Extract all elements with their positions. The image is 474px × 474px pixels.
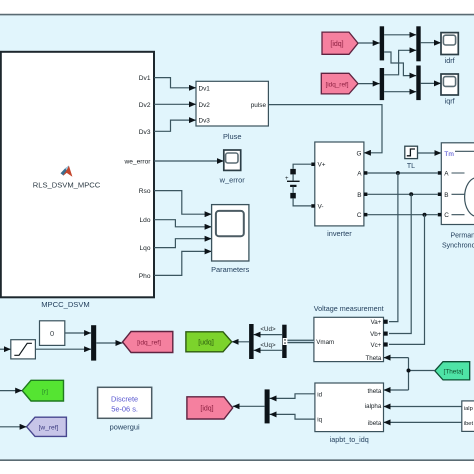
svg-text:Pho: Pho	[139, 273, 151, 280]
svg-text:Rso: Rso	[139, 188, 151, 195]
svg-text:B: B	[357, 192, 361, 199]
svg-text:A: A	[357, 171, 362, 178]
goto tag [w_ref]	[27, 417, 67, 436]
from tag [idq_ref] (top)	[321, 73, 358, 94]
wire idq_ref to demux	[358, 83, 380, 85]
port square V-	[311, 204, 315, 208]
svg-text:Permanent: Permanent	[451, 233, 474, 240]
wire mux to iqrf	[421, 82, 441, 84]
svg-text:we_error: we_error	[123, 159, 151, 166]
subsystem MPCC_DSVM	[1, 52, 154, 297]
port square PMSM B	[438, 193, 442, 197]
wire d3 out2	[384, 91, 416, 93]
scope iqrf	[441, 74, 458, 95]
svg-text:V+: V+	[318, 162, 326, 169]
block iapbt_to_idq	[315, 383, 384, 432]
demux Vmam	[282, 325, 286, 358]
svg-text:C: C	[357, 212, 362, 219]
scope w_error	[224, 150, 241, 170]
svg-text:pulse: pulse	[251, 102, 267, 109]
wire saturation to mux	[35, 348, 91, 350]
svg-text:inverter: inverter	[327, 229, 352, 238]
wire iq to mux	[270, 414, 315, 419]
wire id to mux	[270, 394, 315, 399]
svg-text:[Theta]: [Theta]	[444, 369, 464, 376]
wire mux to idq_ref tag	[96, 342, 122, 344]
svg-text:Voltage measurement: Voltage measurement	[314, 304, 384, 313]
mux M2	[416, 26, 420, 61]
wire ibeta	[384, 421, 462, 423]
wire Dv3	[154, 120, 196, 131]
from tag [Theta]	[435, 362, 470, 380]
svg-text:ibeta: ibeta	[368, 420, 382, 427]
mux M4	[416, 66, 420, 101]
svg-text:ialp: ialp	[464, 406, 473, 412]
svg-text:Va+: Va+	[371, 319, 382, 326]
svg-text:Vc+: Vc+	[370, 342, 381, 349]
node A tap	[396, 171, 400, 175]
svg-text:powergui: powergui	[110, 423, 140, 432]
goto tag [r]	[22, 380, 63, 401]
wire theta to iapbt	[384, 389, 409, 391]
wire Vmam thick	[283, 338, 314, 345]
machine PMSM	[441, 143, 474, 225]
svg-text:iq: iq	[317, 417, 322, 424]
svg-text:ibet: ibet	[464, 421, 474, 427]
wire phase B	[367, 193, 437, 195]
wire 0 to mux	[65, 332, 91, 334]
wire battery to V+	[293, 164, 311, 169]
svg-text:G: G	[357, 150, 362, 157]
svg-text:[r]: [r]	[42, 388, 48, 395]
wire Lqo	[154, 239, 212, 248]
block current measurement (cut)	[462, 401, 474, 432]
svg-text:Discrete: Discrete	[111, 395, 138, 404]
svg-text:idrf: idrf	[445, 56, 455, 65]
svg-text:[udq]: [udq]	[198, 340, 214, 347]
wire mux to udq tag	[232, 341, 249, 343]
svg-text:RLS_DSVM_MPCC: RLS_DSVM_MPCC	[33, 181, 101, 190]
wire d3 out1 crossing	[384, 50, 416, 75]
demux D3	[380, 68, 384, 100]
svg-text:Vmam: Vmam	[316, 339, 334, 346]
wire Theta net	[409, 358, 435, 390]
port square inverter A	[364, 171, 368, 175]
svg-text:0: 0	[50, 329, 54, 338]
block Voltage measurement	[314, 317, 384, 361]
wire Dv2	[154, 103, 196, 105]
wire mux to idrf	[421, 42, 441, 44]
svg-text:B: B	[444, 192, 448, 199]
svg-text:Parameters: Parameters	[211, 265, 250, 274]
wire pulse to G	[268, 105, 382, 153]
svg-text:theta: theta	[368, 388, 382, 395]
wire B to Vb+	[389, 194, 411, 333]
top border line	[0, 14, 474, 16]
wire d1 out1	[384, 34, 416, 36]
wire A to Va+	[389, 173, 398, 322]
port square Va+	[384, 320, 388, 324]
svg-text:Dv2: Dv2	[139, 102, 151, 109]
wire d1 out2 crossing	[384, 52, 416, 76]
svg-text:Pluse: Pluse	[223, 132, 242, 141]
wire Theta to voltage measurement	[384, 357, 409, 359]
svg-text:iapbt_to_idq: iapbt_to_idq	[330, 435, 369, 444]
svg-text:iqrf: iqrf	[445, 97, 455, 106]
constant 0	[40, 321, 65, 346]
wire input to saturation	[0, 348, 11, 350]
wire we_error	[154, 160, 224, 162]
svg-text:Dv3: Dv3	[199, 118, 211, 125]
wire C to Vc+	[389, 215, 425, 345]
goto tag [udq]	[186, 332, 232, 352]
svg-text:Tm: Tm	[444, 151, 454, 158]
port square PMSM A	[438, 171, 442, 175]
svg-text:Synchronous: Synchronous	[442, 243, 474, 250]
svg-text:Vb+: Vb+	[370, 331, 382, 338]
port square PMSM C	[438, 213, 442, 217]
svg-text:TL: TL	[407, 163, 415, 170]
wire Ud	[254, 334, 283, 336]
wire to [w_ref]	[0, 426, 27, 428]
svg-text:MPCC_DSVM: MPCC_DSVM	[41, 300, 90, 309]
bottom border line	[0, 459, 474, 461]
PMSM icon stator lines	[452, 151, 474, 214]
saturation block	[11, 340, 36, 359]
wire ialpha	[384, 406, 462, 408]
svg-text:A: A	[444, 171, 449, 178]
svg-text:Lqo: Lqo	[139, 245, 150, 252]
svg-text:[idq_ref]: [idq_ref]	[325, 81, 348, 88]
port square Vc+	[384, 342, 388, 346]
wire Pho	[154, 251, 212, 275]
wire Rso	[154, 191, 212, 215]
wire phase A	[367, 172, 437, 174]
goto tag [idq_ref] (bottom)	[123, 332, 173, 353]
svg-text:+: +	[285, 176, 289, 182]
wire phase C	[367, 214, 437, 216]
svg-text:Ldo: Ldo	[139, 217, 150, 224]
powergui block	[98, 387, 152, 418]
block inverter	[315, 142, 364, 226]
svg-text:ialpha: ialpha	[365, 403, 382, 410]
port square inverter C	[364, 213, 368, 217]
demux D1	[380, 26, 384, 60]
wire battery to V-	[293, 198, 311, 206]
node B tap	[409, 192, 413, 196]
MATLAB logo icon	[61, 166, 73, 177]
wire mux to idq tag	[233, 405, 265, 407]
DC source battery	[285, 169, 300, 199]
svg-text:[idq]: [idq]	[200, 406, 213, 413]
svg-text:Dv2: Dv2	[199, 102, 211, 109]
node C tap	[423, 213, 427, 217]
svg-text:<Ud>: <Ud>	[260, 326, 276, 333]
scope idrf	[441, 33, 458, 55]
block Pluse	[196, 81, 268, 126]
svg-text:Theta: Theta	[365, 355, 381, 362]
wire Ldo	[154, 220, 212, 227]
port square V+	[311, 163, 315, 167]
port square Vb+	[384, 332, 388, 336]
svg-text:C: C	[444, 212, 449, 219]
svg-text:[idq_ref]: [idq_ref]	[137, 340, 161, 347]
svg-text:V-: V-	[318, 203, 324, 210]
svg-text:[w_ref]: [w_ref]	[39, 425, 59, 432]
scope Parameters	[212, 205, 249, 261]
svg-text:<Uq>: <Uq>	[260, 342, 276, 349]
step source TL	[405, 146, 418, 158]
svg-text:id: id	[317, 391, 322, 398]
wire to [r]	[0, 390, 22, 392]
svg-text:Dv3: Dv3	[139, 129, 151, 136]
mux Ud/Uq	[249, 324, 254, 359]
node Theta junction	[407, 369, 411, 373]
mux idq_ref	[91, 325, 96, 360]
wire TL to Tm	[418, 152, 442, 154]
wire Dv1	[154, 78, 196, 88]
wire Uq	[254, 349, 283, 351]
svg-text:5e-06 s.: 5e-06 s.	[111, 405, 138, 414]
mux id/iq	[265, 389, 270, 423]
port square inverter B	[364, 193, 368, 197]
svg-text:Dv1: Dv1	[139, 75, 151, 82]
goto tag [idq] (bottom)	[187, 397, 233, 419]
wire idq to demux	[358, 42, 380, 44]
svg-text:w_error: w_error	[219, 176, 246, 185]
from tag [idq] (top)	[322, 32, 358, 54]
svg-text:[idq]: [idq]	[330, 41, 343, 48]
svg-text:Dv1: Dv1	[199, 85, 211, 92]
